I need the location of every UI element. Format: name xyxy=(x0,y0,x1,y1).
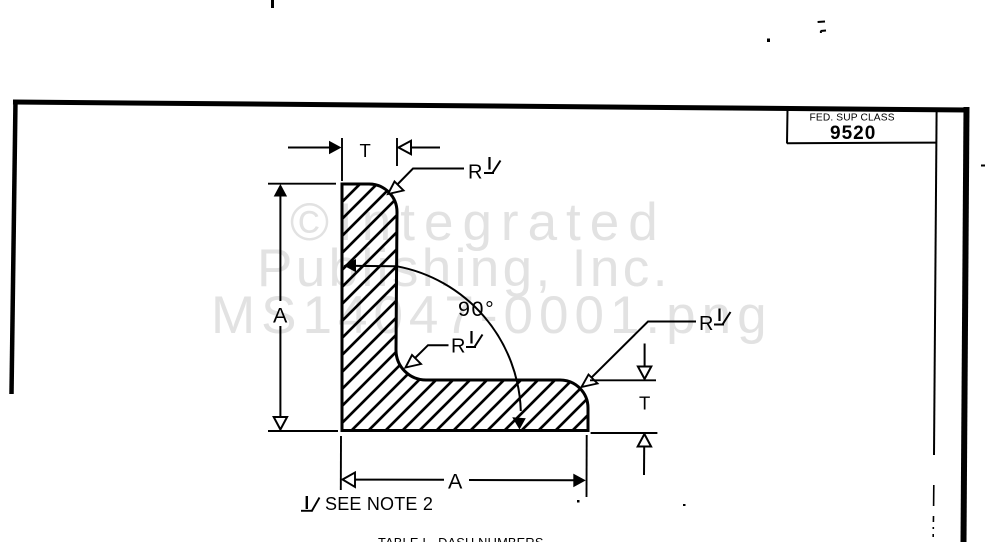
90 degree angle arc: left arrowhead (filled, pointing left) xyxy=(344,259,357,272)
svg-text:T: T xyxy=(360,140,371,161)
leader R1 top: footnote 1/ xyxy=(484,157,501,173)
fed sup class box xyxy=(787,110,937,455)
svg-text:90°: 90° xyxy=(458,297,495,321)
stray scan mark: dot near upper right xyxy=(767,39,770,43)
border left xyxy=(12,100,16,394)
angle cross-section outline with hatching xyxy=(342,184,588,431)
dimension A bottom: left arrowhead (open, pointing left) xyxy=(343,473,356,488)
border right xyxy=(964,107,967,542)
dimension A bottom: dim line right part xyxy=(469,479,575,481)
svg-text:A: A xyxy=(273,304,288,328)
svg-text:T: T xyxy=(639,393,650,414)
svg-text:R: R xyxy=(699,313,713,335)
dimension T right: upper extension line xyxy=(590,379,656,381)
svg-text:A: A xyxy=(448,470,463,494)
dimension A left: bottom extension line xyxy=(268,430,338,432)
note reference 1/ SEE NOTE 2 xyxy=(301,494,433,514)
svg-text:FED. SUP CLASS: FED. SUP CLASS xyxy=(810,113,895,124)
svg-text:9520: 9520 xyxy=(830,123,876,144)
fed sup class column dashed lower xyxy=(932,485,935,537)
dimension A bottom: right extension line xyxy=(586,435,588,497)
dimension T top: right dim line xyxy=(409,147,440,149)
dimension A bottom: left extension line xyxy=(340,436,342,490)
stray scan mark: right edge tick xyxy=(981,165,985,167)
svg-text:R: R xyxy=(451,336,465,358)
dimension A bottom: right arrowhead (filled, pointing right) xyxy=(573,474,586,488)
stray scan mark: dots below figure xyxy=(577,500,580,503)
leader R1 middle: footnote 1/ xyxy=(466,331,483,347)
dimension T top: left dim line xyxy=(288,147,332,149)
leader R1 middle: arrowhead (open, pointing down-left) xyxy=(406,355,422,368)
dimension A left: top arrowhead (filled, up) xyxy=(274,184,287,197)
90 degree angle arc: bottom arrowhead (filled, pointing down) xyxy=(512,417,526,429)
leader R1 right: leader line xyxy=(585,322,696,385)
leader R1 top: arrowhead (open, pointing down-left) xyxy=(388,182,404,195)
svg-text:SEE NOTE 2: SEE NOTE 2 xyxy=(325,494,433,514)
dimension A left: top extension line xyxy=(268,183,336,185)
dimension T top: right arrowhead (open, pointing left) xyxy=(399,141,412,154)
svg-text:TABLE I - DASH NUMBERS: TABLE I - DASH NUMBERS xyxy=(378,535,544,542)
dimension T right: lower extension line xyxy=(591,432,658,434)
dimension T top: right extension line xyxy=(396,138,398,166)
90 degree angle arc: arc curve xyxy=(397,266,521,411)
dimension A left: dim line lower xyxy=(279,326,281,420)
dimension A left: bottom arrowhead (open, down) xyxy=(274,417,287,430)
90 degree angle arc: left arrow line over leg xyxy=(345,265,397,268)
dimension T right: lower dim line xyxy=(643,447,645,476)
dimension A left: dim line upper xyxy=(279,193,281,301)
dimension T top: left extension line xyxy=(341,138,343,181)
leader R1 right: arrowhead (open, pointing down-left) xyxy=(582,375,598,388)
stray scan mark: top center tick xyxy=(271,0,274,8)
svg-text:R: R xyxy=(468,162,482,184)
dimension T top: left arrowhead (filled, pointing right) xyxy=(329,141,342,154)
leader R1 right: footnote 1/ xyxy=(714,309,731,325)
dimension A bottom: dim line left part xyxy=(355,479,444,481)
dimension T right: upper dim line xyxy=(644,344,646,370)
border top xyxy=(13,102,968,110)
stray scan mark: upper right dashes xyxy=(818,22,826,34)
leader R1 middle: leader line xyxy=(407,345,449,366)
dimension T right: upper arrowhead (open, down) xyxy=(638,367,651,380)
leader R1 top: leader line xyxy=(389,169,464,194)
dimension T right: lower arrowhead (open, up) xyxy=(638,434,651,447)
